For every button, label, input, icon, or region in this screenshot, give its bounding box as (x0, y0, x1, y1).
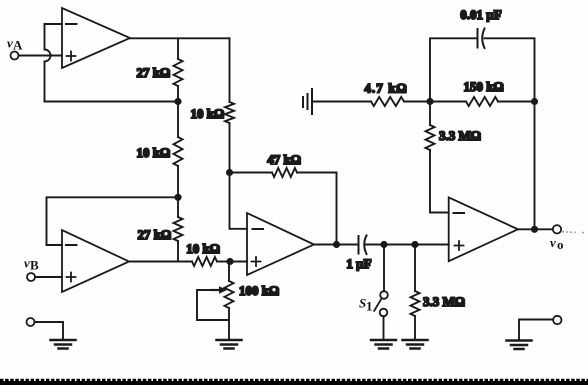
resistor 10k (chain) (174, 137, 183, 166)
op-amp U3 (247, 213, 314, 275)
capacitor 1uF (346, 236, 371, 272)
ground (bottom left) (51, 340, 76, 349)
wire gnd to 4.7k (312, 101, 371, 103)
wire 47k right down to U3 out (297, 173, 337, 245)
wire (429, 102, 431, 126)
wire to U3 + (217, 261, 247, 263)
svg-text:27 kΩ: 27 kΩ (138, 227, 171, 242)
resistor 4.7k (371, 97, 404, 106)
svg-text:100 kΩ: 100 kΩ (239, 283, 279, 298)
op-amp U1 (62, 8, 130, 68)
ground (pot) (217, 340, 242, 349)
svg-text:A: A (13, 38, 23, 53)
wire (177, 166, 179, 217)
wire U3 output (314, 244, 359, 246)
ground (3.3M) (403, 340, 428, 349)
wire U2 feedback up (47, 197, 179, 245)
terminal vA (7, 36, 23, 60)
svg-text:10 kΩ: 10 kΩ (186, 241, 219, 256)
op-amp U2 (62, 230, 129, 292)
terminal vo (550, 225, 564, 252)
capacitor 0.01uF branch (430, 7, 535, 102)
switch S1 (359, 245, 388, 341)
node J (531, 226, 538, 233)
svg-text:1: 1 (366, 299, 373, 314)
wire node C down to U3 - (230, 173, 248, 229)
svg-text:v: v (550, 235, 556, 250)
wire (177, 241, 179, 262)
ground (sideways) (303, 89, 312, 114)
wire feedback vertical to U4 out (534, 102, 536, 230)
resistor 3.3M (shunt) (411, 245, 465, 341)
wire U1 - stub (45, 23, 63, 25)
wire vA to U1 + (19, 55, 62, 57)
svg-text:4.7 kΩ: 4.7 kΩ (364, 81, 407, 96)
terminal vB (24, 256, 39, 282)
wire (177, 86, 179, 137)
wire (177, 38, 179, 59)
svg-text:150 kΩ: 150 kΩ (464, 79, 504, 94)
node C (226, 169, 233, 176)
node D (226, 258, 233, 265)
svg-text:3.3 MΩ: 3.3 MΩ (423, 294, 465, 309)
resistor 10k (series) (192, 257, 217, 266)
svg-text:1 µF: 1 µF (346, 256, 371, 271)
resistor 150k (430, 101, 466, 103)
wire U2 - stub (47, 244, 63, 246)
node F (380, 241, 387, 248)
node E (333, 241, 340, 248)
wire U1 output (130, 37, 230, 39)
wire U2 output (129, 261, 192, 263)
node I (531, 98, 538, 105)
svg-text:B: B (30, 258, 39, 273)
wire cap to U4 + rail (366, 244, 449, 246)
terminal (bottom left) (27, 318, 35, 326)
wire (229, 123, 231, 173)
svg-text:0.01 µF: 0.01 µF (460, 7, 501, 22)
svg-text:10 kΩ: 10 kΩ (137, 145, 170, 160)
wire 4.7k to node H (404, 101, 430, 103)
node A (174, 98, 181, 105)
wire right branch vertical (229, 38, 231, 102)
node B (174, 194, 181, 201)
resistor 3.3M (series) (426, 125, 435, 150)
svg-text:o: o (557, 237, 564, 252)
node G (411, 241, 418, 248)
resistor 27k (lower) (174, 217, 183, 241)
wire terminal to ground (519, 320, 553, 341)
resistor 47k (230, 172, 273, 174)
terminal (bottom right) (553, 316, 561, 324)
wire U1 feedback bottom (45, 101, 179, 103)
node H (426, 98, 433, 105)
wire U1 feedback vertical with hop (45, 24, 51, 102)
svg-text:10 kΩ: 10 kΩ (191, 106, 224, 121)
ground (S1) (371, 340, 396, 349)
wire vB to U2 + (35, 276, 62, 278)
svg-text:3.3 MΩ: 3.3 MΩ (439, 128, 481, 143)
resistor 10k (right branch) (225, 102, 234, 123)
wire U4 - stub (430, 150, 449, 213)
wire U4 output (518, 228, 553, 230)
svg-text:47 kΩ: 47 kΩ (267, 152, 300, 167)
ground (bottom right) (507, 341, 532, 350)
op-amp U4 (449, 197, 518, 261)
resistor 27k (top) (174, 59, 183, 86)
potentiometer 100k (197, 262, 279, 341)
wire terminal to ground (35, 322, 63, 340)
svg-text:27 kΩ: 27 kΩ (137, 65, 170, 80)
